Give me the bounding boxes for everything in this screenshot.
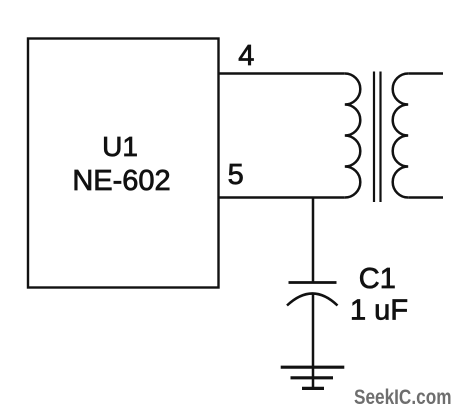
svg-text:NE-602: NE-602 bbox=[72, 165, 170, 197]
svg-text:C1: C1 bbox=[359, 263, 396, 295]
wire secondary bottom lead bbox=[408, 196, 443, 199]
wire node A to transformer primary bbox=[313, 196, 345, 199]
wire pin 4 to transformer primary bbox=[218, 72, 345, 75]
wire secondary top lead bbox=[408, 72, 443, 75]
wire capacitor to ground bbox=[312, 295, 315, 390]
transformer T1 core bbox=[374, 72, 381, 203]
transformer T1 primary winding bbox=[345, 74, 360, 198]
svg-text:4: 4 bbox=[238, 40, 254, 72]
svg-text:U1: U1 bbox=[102, 131, 138, 162]
wire pin 5 to node A bbox=[218, 196, 313, 199]
capacitor C1 top plate bbox=[289, 281, 337, 284]
capacitor C1 curved plate bbox=[287, 294, 338, 306]
wire node A down to capacitor C1 bbox=[312, 198, 315, 283]
svg-text:1 uF: 1 uF bbox=[350, 295, 408, 327]
ground bbox=[281, 367, 345, 388]
svg-text:SeekIC.com: SeekIC.com bbox=[354, 385, 452, 409]
svg-text:5: 5 bbox=[228, 159, 244, 191]
IC U1 NE-602 body bbox=[28, 39, 219, 288]
transformer T1 secondary winding bbox=[393, 74, 409, 198]
